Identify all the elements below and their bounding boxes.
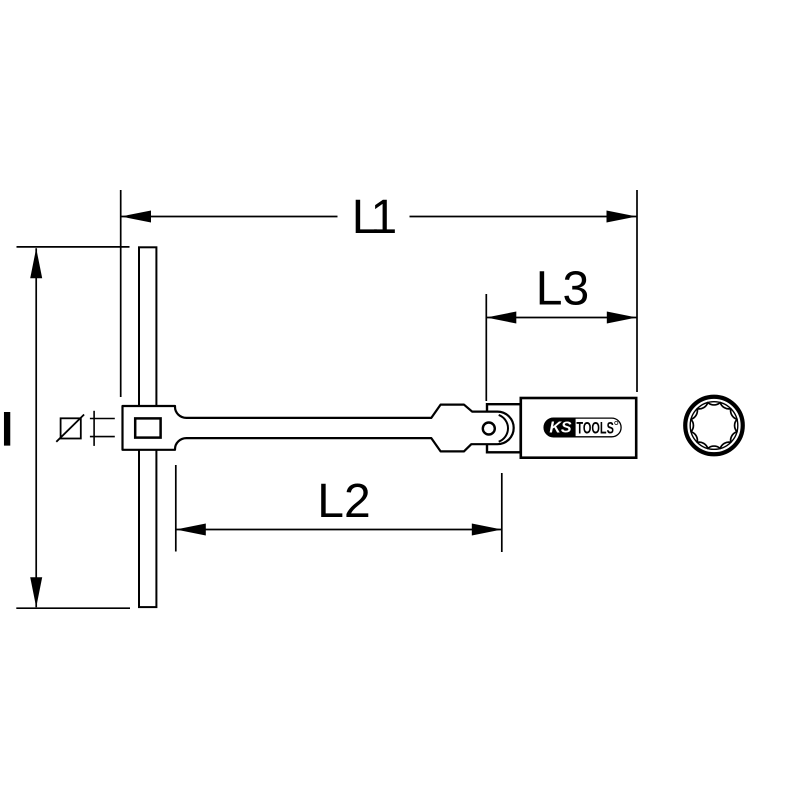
socket end view outer circle (685, 397, 743, 455)
dimension l line (35, 248, 37, 607)
svg-text:l: l (1, 404, 14, 456)
square-drive diameter symbol slash (56, 415, 84, 442)
KS TOOLS logo registered mark (615, 421, 618, 424)
dimension L3 line (486, 317, 637, 319)
svg-text:TOOLS: TOOLS (576, 419, 614, 437)
svg-text:L1: L1 (352, 191, 396, 244)
wrench body: handle block, shaft, joint bulge, yoke (123, 405, 514, 452)
dimension L1 line left segment (121, 216, 338, 218)
handle block inner square (135, 418, 160, 437)
svg-text:L2: L2 (317, 475, 370, 528)
dimension L1/L3 extension line right (636, 190, 638, 392)
dimension l arrow down (30, 577, 42, 607)
svg-text:KS: KS (549, 420, 572, 437)
socket end view 12-point profile (691, 403, 737, 449)
square size tick symbol top (90, 418, 115, 420)
dimension L1 arrow right (607, 211, 637, 223)
KS TOOLS logo black field (544, 418, 575, 437)
socket body (521, 398, 636, 458)
dimension L1 line right segment (410, 216, 637, 218)
dimension L3 arrow left (486, 312, 516, 324)
square size tick symbol vertical (93, 411, 95, 446)
dimension l arrow up (30, 248, 42, 278)
square-drive diameter symbol box (61, 418, 81, 438)
dimension L2 arrow left (176, 524, 206, 536)
KS TOOLS logo stadium outline (544, 418, 621, 437)
socket end view inner circle (690, 402, 738, 450)
dimension L2 extension line left (175, 465, 177, 552)
dimension L2 extension line right (501, 473, 503, 552)
T-handle bar (139, 247, 156, 607)
svg-text:L3: L3 (536, 263, 589, 316)
yoke crescent arc (499, 415, 508, 442)
dimension L2 line (176, 529, 502, 531)
dimension l extension line bottom (16, 607, 130, 609)
dimension l extension line top (17, 246, 130, 248)
dimension L1 arrow left (121, 211, 151, 223)
dimension L3 arrow right (607, 312, 637, 324)
joint pin circle (483, 423, 495, 435)
dimension L1 extension line left (120, 190, 122, 397)
dimension L2 arrow right (472, 524, 502, 536)
dimension L3 extension line left (485, 294, 487, 401)
square size tick symbol bottom (90, 436, 115, 438)
joint ring (487, 404, 521, 452)
